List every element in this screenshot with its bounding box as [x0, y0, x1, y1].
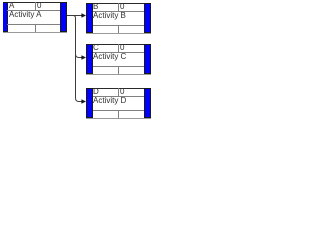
arrowhead into C [81, 55, 86, 59]
node A left blue bar [3, 2, 8, 32]
wire branch drop from A-B line [73, 16, 76, 58]
node C bottom shadow [86, 74, 151, 75]
node A top border [7, 2, 60, 3]
node C top-row cell divider [118, 44, 119, 52]
node B duration cell text "0" [120, 3, 124, 11]
node D right blue bar [144, 88, 151, 118]
node A duration cell text "0" [37, 2, 41, 10]
node D top border [93, 88, 144, 89]
node C right blue bar [144, 44, 151, 74]
node B top-row cell divider [118, 3, 119, 11]
node D left blue bar [86, 88, 93, 118]
node D top-row cell divider [118, 88, 119, 96]
node C name text [93, 53, 126, 61]
node B name text [93, 12, 126, 20]
node A right blue bar [60, 2, 67, 32]
node A divider row1/row2 [7, 10, 60, 11]
node C id cell text "C" [93, 44, 99, 52]
node A bottom-row cell divider [35, 24, 36, 32]
node B bottom shadow [86, 33, 151, 34]
node C top border [93, 44, 144, 45]
node D bottom-row cell divider [118, 110, 119, 118]
node D id cell text "D" [93, 88, 99, 96]
node A top-row cell divider [35, 2, 36, 10]
arrowhead into B [81, 13, 86, 17]
node C divider row1/row2 [93, 52, 144, 53]
node C bottom-row cell divider [118, 66, 119, 74]
node B id cell text "B" [93, 3, 98, 11]
wire A to B horizontal [67, 15, 82, 17]
node D name text [93, 97, 126, 105]
node D divider row2/row3 [93, 110, 144, 111]
node D divider row1/row2 [93, 96, 144, 97]
node C duration cell text "0" [120, 44, 124, 52]
node C divider row2/row3 [93, 66, 144, 67]
arrowhead into D [81, 99, 86, 103]
node A divider row2/row3 [7, 24, 60, 25]
node B bottom-row cell divider [118, 25, 119, 33]
node A name text [9, 11, 41, 19]
node B left blue bar [86, 3, 93, 33]
node B divider row1/row2 [93, 11, 144, 12]
wire branch down to D [76, 58, 83, 102]
node A id cell text "A" [9, 2, 14, 10]
wire branch to C [76, 54, 83, 58]
node B divider row2/row3 [93, 25, 144, 26]
node B top border [93, 3, 144, 4]
node D bottom shadow [86, 118, 151, 119]
node B right blue bar [144, 3, 151, 33]
node C left blue bar [86, 44, 93, 74]
link arrows overlay [0, 0, 156, 126]
node D duration cell text "0" [120, 88, 124, 96]
node A bottom shadow [3, 32, 67, 33]
